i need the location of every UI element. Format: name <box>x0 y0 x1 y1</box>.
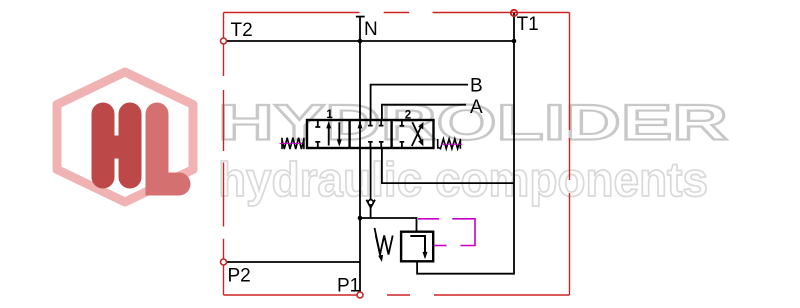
watermark logo letter H <box>92 103 141 188</box>
port N plug tick <box>356 16 365 18</box>
valve DV1 position 2 cross arrow falling <box>412 122 423 146</box>
valve DV1 position 1 up arrow <box>326 121 331 146</box>
port P2 <box>221 259 227 265</box>
port P1 <box>357 292 363 298</box>
valve DV1 body <box>307 120 434 148</box>
watermark logo letter L <box>146 103 190 195</box>
valve DV1 position 1 blocked port bottom <box>315 142 320 147</box>
valve DV1 position 2 blocked port top <box>400 121 405 126</box>
valve DV1 right spring magenta centreline <box>441 143 462 145</box>
valve DV1 position 2 cross arrow rising <box>412 122 424 146</box>
svg-text:T1: T1 <box>517 14 539 35</box>
check valve CV1 ball <box>368 200 373 205</box>
valve DV1 position 2 blocked port bottom <box>400 142 405 147</box>
valve DV1 neutral up arrowhead on N line <box>358 121 363 128</box>
wire N vertical (P feed through valve centre to P1) <box>359 17 361 295</box>
wire P2 <box>224 261 361 263</box>
relief valve RV1 flow arrow <box>410 236 427 259</box>
watermark logo hexagon <box>57 72 193 202</box>
valve DV1 right return spring <box>438 139 461 149</box>
valve DV1 position 1 down arrow <box>337 122 342 147</box>
port T2 <box>221 38 227 44</box>
svg-text:P2: P2 <box>228 266 251 287</box>
svg-text:T2: T2 <box>231 20 253 41</box>
svg-text:1: 1 <box>326 109 333 121</box>
wire check valve lower <box>370 208 372 219</box>
check valve CV1 seat <box>366 200 375 208</box>
wire valve bottom to check valve upper <box>370 148 372 200</box>
valve DV1 neutral blocked ports top <box>368 121 383 126</box>
wire T2 to T1 tank gallery <box>224 40 515 42</box>
svg-text:N: N <box>364 19 378 40</box>
port T1 <box>511 10 517 16</box>
relief valve RV1 body <box>401 232 433 262</box>
frame bottom edge <box>224 294 570 296</box>
svg-text:2: 2 <box>405 110 411 122</box>
relief valve RV1 pilot line (magenta dashed) <box>418 218 439 220</box>
wire port A <box>382 105 466 120</box>
frame left edge <box>223 13 225 296</box>
boundary frame (red phantom-dash rectangle) <box>224 13 570 296</box>
svg-text:hydraulic components: hydraulic components <box>218 153 708 207</box>
relief valve RV1 adjustment arrow <box>375 228 384 262</box>
frame right edge <box>569 13 571 296</box>
node junction N on tank gallery <box>358 39 363 44</box>
wire valve bottom right to tank line <box>382 148 514 183</box>
valve DV1 position 1 blocked port top <box>315 121 320 127</box>
node junction above relief tee <box>358 216 363 221</box>
svg-text:B: B <box>470 76 483 97</box>
valve DV1 left spring magenta centreline <box>280 142 303 144</box>
valve DV1 left return spring <box>282 138 304 149</box>
relief valve RV1 adjustable spring <box>376 236 393 255</box>
wire port B <box>371 85 468 120</box>
svg-text:A: A <box>470 97 483 118</box>
wire T1 down and to relief outlet <box>417 13 514 274</box>
frame top edge <box>224 12 570 14</box>
node junction T1 on tank gallery <box>512 39 517 44</box>
valve DV1 neutral blocked ports bottom <box>368 142 383 147</box>
watermark text HYDROLIDER <box>218 94 728 150</box>
wire tee to relief inlet <box>360 218 417 232</box>
svg-text:P1: P1 <box>337 276 360 297</box>
watermark text hydraulic components <box>218 153 708 207</box>
